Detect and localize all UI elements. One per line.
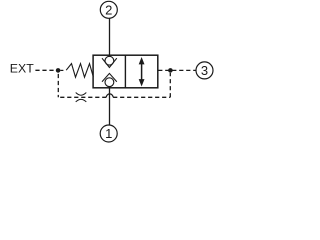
- check valve seat top: [102, 58, 117, 67]
- pilot line EXT to junction: [35, 69, 56, 71]
- orifice restriction lower arc: [76, 99, 87, 102]
- orifice restriction upper arc: [76, 93, 87, 96]
- pilot line bottom horizontal right part: [113, 96, 170, 98]
- svg-text:3: 3: [201, 63, 208, 78]
- pilot line body to port 3: [158, 69, 196, 71]
- spring: [66, 64, 93, 78]
- wire internal top stub: [109, 55, 111, 57]
- check valve ball top: [105, 56, 114, 65]
- port circle 2: [100, 1, 117, 18]
- wire valve body to port 1: [109, 88, 111, 125]
- junction dot left: [56, 68, 61, 73]
- position divider: [124, 55, 126, 88]
- wire internal bottom stub: [109, 86, 111, 88]
- flow arrowhead down: [139, 79, 145, 86]
- svg-text:2: 2: [105, 3, 112, 18]
- junction dot right: [168, 68, 173, 73]
- pilot line left vertical: [57, 74, 59, 97]
- check valve seat bottom: [102, 73, 117, 81]
- wire port 2 to valve body: [109, 18, 111, 55]
- port circle 3: [196, 62, 213, 79]
- check valve ball bottom: [105, 78, 114, 87]
- svg-text:EXT: EXT: [10, 61, 34, 75]
- pilot stub dot to spring: [60, 69, 63, 71]
- svg-text:1: 1: [105, 126, 112, 141]
- flow arrowhead up: [139, 57, 145, 64]
- pilot line bottom horizontal left part: [58, 96, 106, 98]
- pilot line right vertical: [169, 73, 171, 97]
- flow arrow shaft right position: [141, 61, 143, 83]
- port circle 1: [100, 125, 117, 142]
- pilot line crossover hop: [106, 94, 113, 97]
- valve body envelope: [93, 55, 158, 88]
